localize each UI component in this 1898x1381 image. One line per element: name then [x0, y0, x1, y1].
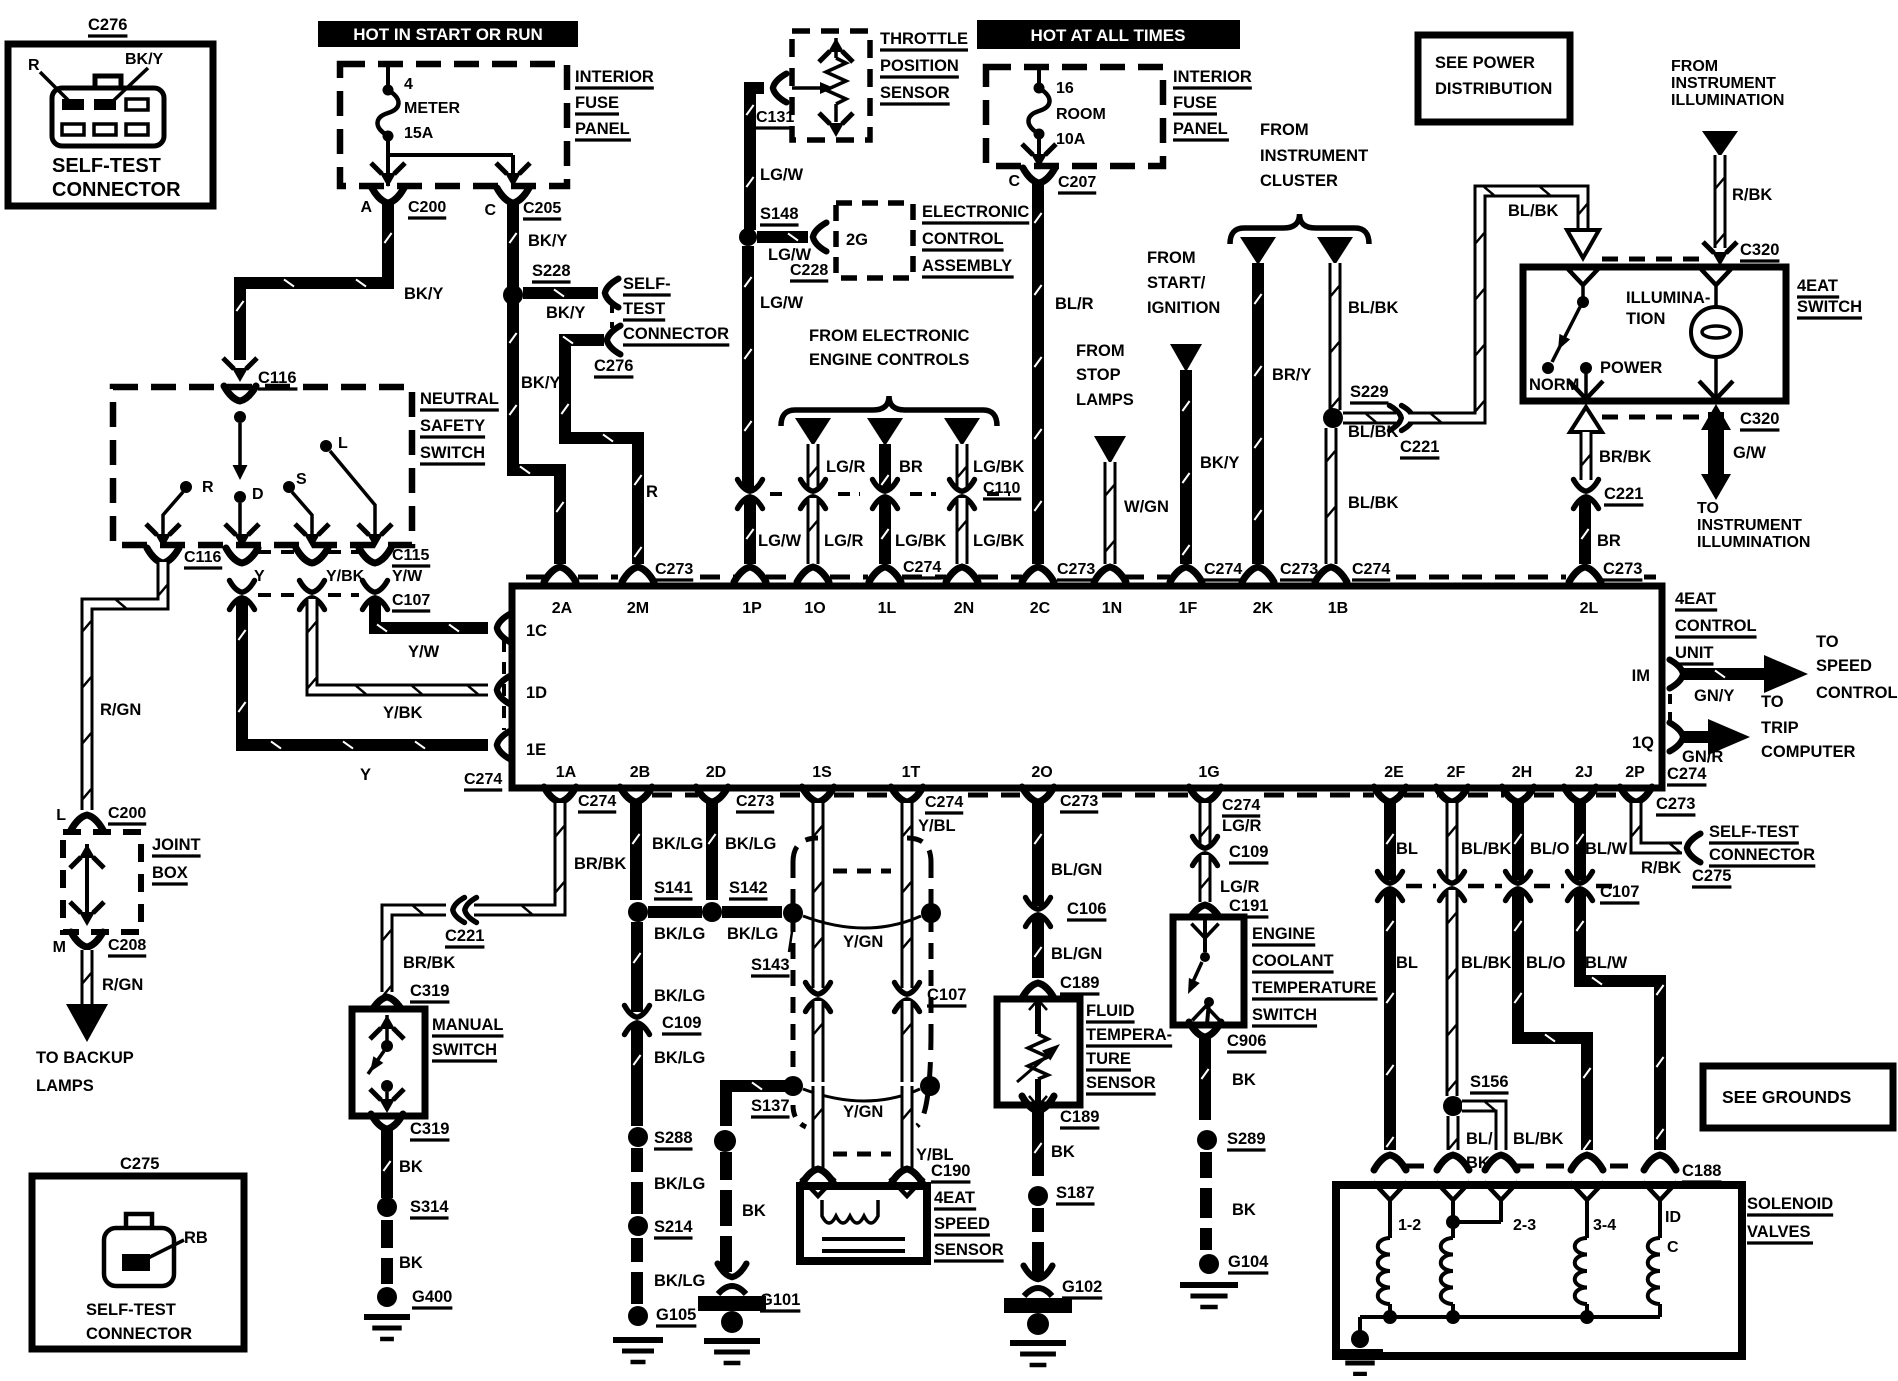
svg-text:R: R	[28, 57, 40, 74]
svg-text:BK/Y: BK/Y	[521, 374, 560, 392]
svg-text:INTERIOR: INTERIOR	[1173, 68, 1252, 86]
svg-text:LG/BK: LG/BK	[895, 532, 946, 550]
svg-text:FLUID: FLUID	[1086, 1002, 1135, 1020]
svg-text:FROM: FROM	[1671, 58, 1718, 75]
svg-text:C274: C274	[578, 793, 616, 810]
svg-text:VALVES: VALVES	[1747, 1223, 1811, 1241]
svg-text:G102: G102	[1062, 1278, 1102, 1296]
svg-text:BR/BK: BR/BK	[574, 855, 626, 873]
svg-text:1F: 1F	[1179, 600, 1198, 617]
svg-text:C221: C221	[1400, 438, 1439, 456]
svg-text:GN/Y: GN/Y	[1694, 687, 1734, 705]
svg-text:HOT AT ALL TIMES: HOT AT ALL TIMES	[1031, 26, 1186, 45]
svg-text:LG/R: LG/R	[826, 458, 865, 476]
svg-text:R/GN: R/GN	[100, 701, 141, 719]
svg-text:ILLUMINA-: ILLUMINA-	[1626, 289, 1710, 307]
svg-text:ID: ID	[1665, 1209, 1681, 1226]
svg-text:BL/BK: BL/BK	[1461, 840, 1511, 858]
svg-text:SPEED: SPEED	[1816, 657, 1872, 675]
svg-text:C274: C274	[903, 559, 941, 576]
svg-text:ILLUMINATION: ILLUMINATION	[1671, 92, 1784, 109]
svg-text:S288: S288	[654, 1129, 693, 1147]
svg-text:C320: C320	[1740, 241, 1779, 259]
svg-text:MANUAL: MANUAL	[432, 1016, 504, 1034]
svg-text:ROOM: ROOM	[1056, 106, 1106, 123]
svg-text:SOLENOID: SOLENOID	[1747, 1195, 1833, 1213]
svg-text:BL: BL	[1396, 954, 1418, 972]
svg-text:G/W: G/W	[1733, 444, 1766, 462]
svg-text:JOINT: JOINT	[152, 836, 201, 854]
svg-text:Y/W: Y/W	[392, 568, 423, 585]
svg-text:1O: 1O	[804, 600, 825, 617]
svg-text:BK: BK	[1232, 1201, 1256, 1219]
svg-text:BK/LG: BK/LG	[654, 987, 705, 1005]
svg-text:BL/BK: BL/BK	[1348, 423, 1398, 441]
svg-text:TRIP: TRIP	[1761, 719, 1799, 737]
svg-text:BR/BK: BR/BK	[1599, 448, 1651, 466]
svg-text:C107: C107	[927, 986, 966, 1004]
svg-text:S214: S214	[654, 1218, 693, 1236]
svg-text:DISTRIBUTION: DISTRIBUTION	[1435, 80, 1552, 98]
svg-text:TO: TO	[1697, 500, 1719, 517]
svg-text:BL/R: BL/R	[1055, 295, 1094, 313]
svg-text:Y: Y	[360, 766, 371, 784]
svg-text:CONNECTOR: CONNECTOR	[623, 325, 729, 343]
svg-text:BK/LG: BK/LG	[727, 925, 778, 943]
svg-text:ENGINE CONTROLS: ENGINE CONTROLS	[809, 351, 969, 369]
svg-text:ILLUMINATION: ILLUMINATION	[1697, 534, 1810, 551]
svg-text:G105: G105	[656, 1306, 696, 1324]
svg-text:4: 4	[404, 76, 413, 93]
svg-text:C200: C200	[108, 805, 146, 822]
svg-text:C319: C319	[410, 982, 449, 1000]
svg-text:CONNECTOR: CONNECTOR	[86, 1325, 192, 1343]
svg-text:BK/LG: BK/LG	[654, 1272, 705, 1290]
svg-text:CONNECTOR: CONNECTOR	[1709, 846, 1815, 864]
svg-text:G400: G400	[412, 1288, 452, 1306]
svg-text:1P: 1P	[742, 600, 762, 617]
svg-text:UNIT: UNIT	[1675, 644, 1714, 662]
svg-text:2L: 2L	[1580, 600, 1599, 617]
svg-text:10A: 10A	[1056, 131, 1086, 148]
svg-text:2A: 2A	[552, 600, 573, 617]
svg-text:BK/Y: BK/Y	[404, 285, 443, 303]
svg-text:C189: C189	[1060, 974, 1099, 992]
svg-text:R/BK: R/BK	[1641, 859, 1681, 877]
svg-text:TEST: TEST	[623, 300, 665, 318]
svg-text:R/GN: R/GN	[102, 976, 143, 994]
svg-text:C207: C207	[1058, 174, 1096, 191]
svg-text:SEE GROUNDS: SEE GROUNDS	[1722, 1087, 1851, 1107]
svg-text:LAMPS: LAMPS	[1076, 391, 1134, 409]
svg-text:CONTROL: CONTROL	[1675, 617, 1757, 635]
svg-text:HOT IN START OR RUN: HOT IN START OR RUN	[353, 25, 543, 44]
svg-text:S: S	[296, 471, 307, 488]
svg-text:LG/W: LG/W	[758, 532, 801, 550]
svg-text:BR/Y: BR/Y	[1272, 366, 1311, 384]
svg-text:M: M	[53, 939, 66, 956]
svg-text:BK/Y: BK/Y	[546, 304, 585, 322]
svg-text:BK/LG: BK/LG	[654, 1175, 705, 1193]
svg-text:BK/LG: BK/LG	[652, 835, 703, 853]
svg-text:BK/LG: BK/LG	[654, 925, 705, 943]
svg-text:C273: C273	[1280, 561, 1318, 578]
svg-text:INSTRUMENT: INSTRUMENT	[1260, 147, 1368, 165]
svg-text:SELF-TEST: SELF-TEST	[86, 1301, 176, 1319]
svg-text:BK/LG: BK/LG	[654, 1049, 705, 1067]
svg-text:BL/BK: BL/BK	[1508, 202, 1558, 220]
svg-text:1S: 1S	[812, 764, 832, 781]
svg-text:S156: S156	[1470, 1073, 1509, 1091]
svg-text:L: L	[338, 435, 348, 452]
svg-text:COOLANT: COOLANT	[1252, 952, 1334, 970]
svg-text:C320: C320	[1740, 410, 1779, 428]
svg-text:SWITCH: SWITCH	[420, 444, 485, 462]
svg-text:2F: 2F	[1447, 764, 1466, 781]
svg-text:2C: 2C	[1030, 600, 1051, 617]
svg-text:C274: C274	[925, 794, 963, 811]
svg-text:BK: BK	[1051, 1143, 1075, 1161]
svg-text:2E: 2E	[1384, 764, 1404, 781]
svg-text:R/BK: R/BK	[1732, 186, 1772, 204]
svg-text:BL/GN: BL/GN	[1051, 861, 1102, 879]
svg-text:3-4: 3-4	[1593, 1217, 1616, 1234]
svg-text:1L: 1L	[878, 600, 897, 617]
svg-text:SAFETY: SAFETY	[420, 417, 485, 435]
svg-text:C906: C906	[1227, 1032, 1266, 1050]
svg-text:1D: 1D	[526, 684, 547, 702]
svg-text:S141: S141	[654, 879, 693, 897]
svg-text:BR/BK: BR/BK	[403, 954, 455, 972]
svg-text:BR: BR	[1597, 532, 1621, 550]
svg-text:Y/W: Y/W	[408, 643, 440, 661]
svg-text:4EAT: 4EAT	[1797, 277, 1838, 295]
svg-text:CLUSTER: CLUSTER	[1260, 172, 1338, 190]
svg-text:BR: BR	[899, 458, 923, 476]
svg-text:BK/LG: BK/LG	[725, 835, 776, 853]
svg-text:2-3: 2-3	[1513, 1217, 1536, 1234]
svg-text:1B: 1B	[1328, 600, 1348, 617]
svg-text:C228: C228	[790, 262, 828, 279]
svg-text:C107: C107	[1600, 883, 1639, 901]
svg-text:BL/BK: BL/BK	[1348, 299, 1398, 317]
svg-text:Y/GN: Y/GN	[843, 933, 883, 951]
svg-text:S137: S137	[751, 1097, 790, 1115]
svg-text:G101: G101	[760, 1291, 800, 1309]
svg-text:C109: C109	[1229, 843, 1268, 861]
svg-text:C205: C205	[523, 200, 561, 217]
svg-text:C189: C189	[1060, 1108, 1099, 1126]
svg-text:C190: C190	[931, 1162, 970, 1180]
svg-text:C107: C107	[392, 592, 430, 609]
svg-text:15A: 15A	[404, 125, 434, 142]
svg-text:GN/R: GN/R	[1682, 748, 1723, 766]
svg-text:BK/Y: BK/Y	[1200, 454, 1239, 472]
svg-text:C276: C276	[594, 357, 633, 375]
svg-text:RB: RB	[184, 1229, 208, 1247]
svg-text:TO: TO	[1761, 693, 1784, 711]
svg-text:BL/BK: BL/BK	[1348, 494, 1398, 512]
svg-text:C131: C131	[756, 109, 794, 126]
svg-text:C115: C115	[392, 547, 429, 564]
svg-text:W/GN: W/GN	[1124, 498, 1169, 516]
svg-text:SPEED: SPEED	[934, 1215, 990, 1233]
svg-text:1T: 1T	[902, 764, 921, 781]
svg-text:SELF-TEST: SELF-TEST	[52, 155, 161, 177]
svg-text:S229: S229	[1350, 383, 1389, 401]
svg-text:STOP: STOP	[1076, 366, 1121, 384]
svg-text:PANEL: PANEL	[575, 120, 630, 138]
svg-text:C273: C273	[1057, 561, 1095, 578]
svg-text:S289: S289	[1227, 1130, 1266, 1148]
svg-text:1N: 1N	[1102, 600, 1122, 617]
svg-text:PANEL: PANEL	[1173, 120, 1228, 138]
svg-text:C221: C221	[1604, 485, 1643, 503]
svg-text:LG/W: LG/W	[760, 294, 803, 312]
svg-text:C274: C274	[464, 771, 502, 788]
svg-text:S228: S228	[532, 262, 571, 280]
svg-text:4EAT: 4EAT	[934, 1189, 975, 1207]
svg-text:C116: C116	[184, 549, 221, 566]
svg-text:4EAT: 4EAT	[1675, 590, 1716, 608]
svg-text:METER: METER	[404, 100, 460, 117]
svg-text:D: D	[252, 486, 264, 503]
svg-text:1G: 1G	[1198, 764, 1219, 781]
svg-text:BOX: BOX	[152, 864, 188, 882]
svg-text:C275: C275	[1692, 867, 1731, 885]
svg-text:START/: START/	[1147, 274, 1206, 292]
svg-text:C274: C274	[1352, 561, 1390, 578]
svg-text:C274: C274	[1667, 765, 1707, 783]
svg-text:S314: S314	[410, 1198, 449, 1216]
svg-text:1E: 1E	[526, 741, 546, 759]
svg-text:ELECTRONIC: ELECTRONIC	[922, 203, 1029, 221]
svg-text:BK: BK	[1232, 1071, 1256, 1089]
svg-text:LG/R: LG/R	[1222, 817, 1261, 835]
svg-text:BK/Y: BK/Y	[528, 232, 567, 250]
svg-text:BL/GN: BL/GN	[1051, 945, 1102, 963]
svg-text:POWER: POWER	[1600, 359, 1662, 377]
svg-text:2P: 2P	[1625, 764, 1645, 781]
svg-text:TEMPERATURE: TEMPERATURE	[1252, 979, 1376, 997]
svg-text:R: R	[646, 483, 658, 501]
svg-text:C: C	[1667, 1239, 1679, 1256]
svg-text:S187: S187	[1056, 1184, 1095, 1202]
svg-text:LG/W: LG/W	[760, 166, 803, 184]
svg-text:C273: C273	[1656, 795, 1695, 813]
svg-text:SEE POWER: SEE POWER	[1435, 54, 1535, 72]
svg-text:FROM: FROM	[1260, 121, 1309, 139]
svg-text:C273: C273	[736, 793, 774, 810]
svg-text:A: A	[360, 199, 372, 216]
svg-text:Y/BK: Y/BK	[383, 704, 423, 722]
svg-text:TO: TO	[1816, 633, 1839, 651]
svg-text:C208: C208	[108, 937, 146, 954]
svg-text:LG/BK: LG/BK	[973, 532, 1024, 550]
svg-text:G104: G104	[1228, 1253, 1269, 1271]
svg-text:IM: IM	[1632, 667, 1650, 685]
svg-text:S142: S142	[729, 879, 768, 897]
svg-text:SWITCH: SWITCH	[1252, 1006, 1317, 1024]
svg-text:BL/O: BL/O	[1530, 840, 1570, 858]
svg-text:FUSE: FUSE	[575, 94, 619, 112]
svg-text:2B: 2B	[630, 764, 650, 781]
svg-text:R: R	[202, 479, 214, 496]
svg-text:BL/W: BL/W	[1585, 840, 1628, 858]
svg-text:2K: 2K	[1253, 600, 1274, 617]
svg-text:COMPUTER: COMPUTER	[1761, 743, 1856, 761]
svg-text:BL: BL	[1396, 840, 1418, 858]
svg-text:BL/BK: BL/BK	[1461, 954, 1511, 972]
svg-text:1A: 1A	[556, 764, 577, 781]
svg-text:1-2: 1-2	[1398, 1217, 1421, 1234]
svg-text:BK: BK	[399, 1254, 423, 1272]
svg-text:SENSOR: SENSOR	[1086, 1074, 1156, 1092]
svg-text:1Q: 1Q	[1632, 734, 1654, 752]
svg-text:BL/O: BL/O	[1526, 954, 1566, 972]
svg-text:THROTTLE: THROTTLE	[880, 30, 968, 48]
svg-text:S143: S143	[751, 956, 790, 974]
svg-text:INSTRUMENT: INSTRUMENT	[1671, 75, 1776, 92]
svg-text:C110: C110	[983, 480, 1020, 497]
svg-text:2M: 2M	[627, 600, 649, 617]
svg-text:C273: C273	[655, 561, 693, 578]
svg-text:C274: C274	[1222, 797, 1260, 814]
svg-text:C191: C191	[1229, 897, 1268, 915]
svg-text:BL/: BL/	[1466, 1130, 1493, 1148]
svg-text:2N: 2N	[954, 600, 974, 617]
svg-text:INSTRUMENT: INSTRUMENT	[1697, 517, 1802, 534]
svg-text:LG/R: LG/R	[1220, 878, 1259, 896]
svg-text:Y/BK: Y/BK	[326, 568, 365, 585]
svg-text:BL/BK: BL/BK	[1513, 1130, 1563, 1148]
svg-text:FUSE: FUSE	[1173, 94, 1217, 112]
svg-text:BL/W: BL/W	[1585, 954, 1628, 972]
svg-text:NEUTRAL: NEUTRAL	[420, 390, 499, 408]
svg-text:C106: C106	[1067, 900, 1106, 918]
svg-text:BK/Y: BK/Y	[125, 51, 164, 68]
svg-text:ASSEMBLY: ASSEMBLY	[922, 257, 1012, 275]
svg-text:SWITCH: SWITCH	[432, 1041, 497, 1059]
svg-text:TION: TION	[1626, 310, 1665, 328]
svg-text:C109: C109	[662, 1014, 701, 1032]
svg-text:TEMPERA-: TEMPERA-	[1086, 1026, 1172, 1044]
svg-text:ENGINE: ENGINE	[1252, 925, 1315, 943]
svg-text:SELF-: SELF-	[623, 275, 671, 293]
svg-text:2D: 2D	[706, 764, 726, 781]
svg-text:2G: 2G	[846, 231, 868, 249]
svg-text:FROM: FROM	[1076, 342, 1125, 360]
svg-text:C319: C319	[410, 1120, 449, 1138]
svg-text:LAMPS: LAMPS	[36, 1077, 94, 1095]
svg-text:TURE: TURE	[1086, 1050, 1131, 1068]
svg-text:IGNITION: IGNITION	[1147, 299, 1220, 317]
svg-text:C274: C274	[1204, 561, 1242, 578]
svg-text:SENSOR: SENSOR	[934, 1241, 1004, 1259]
svg-text:C276: C276	[88, 16, 127, 34]
svg-text:C188: C188	[1682, 1162, 1721, 1180]
svg-text:C: C	[484, 202, 496, 219]
svg-text:1C: 1C	[526, 622, 547, 640]
svg-text:C273: C273	[1603, 560, 1642, 578]
svg-text:SENSOR: SENSOR	[880, 84, 950, 102]
svg-text:CONTROL: CONTROL	[1816, 684, 1898, 702]
svg-text:2H: 2H	[1512, 764, 1532, 781]
svg-text:INTERIOR: INTERIOR	[575, 68, 654, 86]
svg-text:C273: C273	[1060, 793, 1098, 810]
svg-text:TO BACKUP: TO BACKUP	[36, 1049, 134, 1067]
svg-text:BK: BK	[742, 1202, 766, 1220]
svg-text:POSITION: POSITION	[880, 57, 959, 75]
svg-text:C221: C221	[445, 927, 484, 945]
svg-text:S148: S148	[760, 205, 799, 223]
svg-text:Y/BL: Y/BL	[918, 817, 956, 835]
svg-text:Y/GN: Y/GN	[843, 1103, 883, 1121]
svg-text:C275: C275	[120, 1155, 159, 1173]
svg-text:FROM ELECTRONIC: FROM ELECTRONIC	[809, 327, 969, 345]
svg-text:2J: 2J	[1575, 764, 1593, 781]
svg-text:L: L	[56, 807, 66, 824]
svg-text:CONNECTOR: CONNECTOR	[52, 179, 181, 201]
svg-text:C200: C200	[408, 199, 446, 216]
svg-text:16: 16	[1056, 80, 1074, 97]
svg-text:SELF-TEST: SELF-TEST	[1709, 823, 1799, 841]
svg-text:LG/BK: LG/BK	[973, 458, 1024, 476]
svg-text:C: C	[1008, 173, 1020, 190]
svg-text:FROM: FROM	[1147, 249, 1196, 267]
svg-text:2O: 2O	[1031, 764, 1052, 781]
svg-text:LG/R: LG/R	[824, 532, 863, 550]
svg-text:BK: BK	[399, 1158, 423, 1176]
svg-text:CONTROL: CONTROL	[922, 230, 1004, 248]
svg-text:SWITCH: SWITCH	[1797, 298, 1862, 316]
